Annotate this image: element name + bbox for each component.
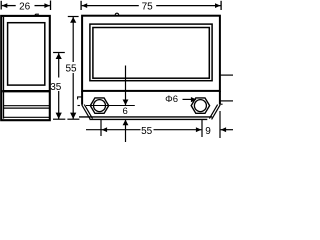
bracket left chamfer lines: [82, 105, 91, 120]
dimension 55 bottom arrows: [102, 127, 108, 132]
front view bezel inner: [93, 28, 209, 79]
svg-text:75: 75: [142, 1, 154, 12]
side view glass: [8, 23, 45, 85]
left nut centerline: [86, 105, 135, 107]
center leader line lower: [125, 120, 127, 142]
svg-text:55: 55: [65, 63, 77, 74]
dim 6 top arrow: [123, 100, 129, 106]
right side stub line upper: [220, 74, 233, 76]
bracket left tab marks: [78, 97, 82, 100]
side view board line 3: [4, 116, 50, 118]
left hex nut: [90, 98, 108, 113]
dimension 75 arrows: [82, 3, 88, 8]
phi6 leader arrow: [183, 98, 192, 100]
svg-text:9: 9: [205, 126, 211, 137]
bottom extension line right edge: [219, 111, 221, 138]
front view outer body: [82, 16, 220, 91]
dimension 75 extension bars and lines: [81, 1, 221, 10]
front view bezel outer: [90, 24, 212, 81]
dimension 55 mid line and ticks: [67, 17, 79, 120]
svg-text:6: 6: [123, 106, 128, 117]
side view top tab: [34, 14, 39, 16]
bracket right tab dash: [220, 103, 223, 105]
right side stub line lower: [220, 100, 233, 102]
bottom extension line left nut: [100, 120, 102, 136]
front view top tab: [115, 13, 119, 15]
svg-text:26: 26: [19, 1, 31, 12]
dimension 35 line and ticks: [53, 53, 65, 120]
dimension 26 arrows: [2, 3, 8, 8]
dimension 26 extension bars and lines: [1, 1, 50, 11]
dimension 9 line and arrow: [221, 129, 233, 131]
svg-text:Φ6: Φ6: [165, 94, 178, 105]
dimension 55 mid arrows: [70, 17, 76, 23]
dim 6 bottom arrow: [123, 120, 129, 126]
side view second left edge line: [3, 17, 5, 119]
svg-text:55: 55: [141, 126, 153, 137]
dimension 35 arrows: [56, 53, 62, 59]
left nut hole: [94, 100, 106, 112]
dimension 55 bottom lines: [86, 129, 141, 131]
bracket right edge extension: [219, 91, 221, 105]
side view board line 2: [4, 107, 50, 109]
bracket bottom line lower: [90, 118, 208, 120]
bottom extension line right nut: [201, 120, 203, 137]
side view outer body: [1, 16, 50, 120]
right nut hole: [194, 100, 206, 112]
side view divider: [2, 90, 49, 92]
center leader line upper: [125, 66, 127, 106]
bracket bottom line upper: [79, 116, 212, 118]
bracket left edge extension: [81, 91, 83, 105]
right hex nut: [191, 98, 209, 113]
bracket right chamfer lines: [212, 105, 221, 120]
svg-text:35: 35: [50, 82, 62, 93]
side view board line 1: [4, 105, 50, 107]
